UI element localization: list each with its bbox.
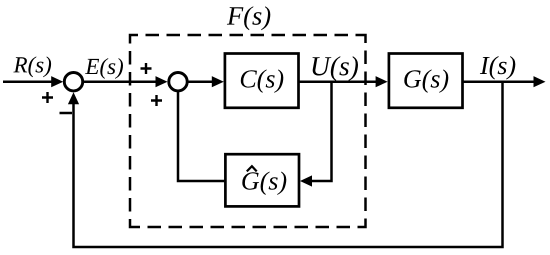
wire input R(s)	[3, 80, 57, 83]
block C(s)	[225, 54, 299, 108]
label Ghat(s)	[242, 172, 286, 196]
arrowhead into summing junction S2	[156, 76, 168, 87]
block G(s)	[389, 54, 463, 108]
arrowhead into S1 bottom	[68, 92, 79, 104]
label F(s)	[227, 6, 270, 30]
wire E(s): S1 to S2	[83, 80, 161, 83]
arrowhead into C(s)	[212, 76, 224, 87]
plus sign above S2 input	[141, 63, 152, 74]
summing junction S1	[64, 73, 82, 91]
wire U(s) tap down to Ghat input	[306, 81, 332, 182]
label I(s)	[480, 56, 515, 80]
label E(s)	[85, 58, 123, 79]
wire C(s) to G(s)	[299, 80, 382, 83]
wire outer feedback loop	[74, 81, 503, 248]
summing junction S2	[169, 73, 187, 91]
wire G(s) to output	[463, 80, 540, 83]
minus sign at S1 feedback	[60, 112, 73, 115]
arrowhead into summing junction S1	[51, 76, 63, 87]
block Ghat(s)	[225, 154, 299, 206]
wire S2 to C(s)	[187, 80, 218, 83]
label R(s)	[13, 56, 51, 77]
hat accent over G	[247, 166, 257, 171]
dashed box F(s) boundary	[130, 35, 366, 227]
label U(s)	[313, 56, 359, 81]
arrowhead into Ghat right edge	[300, 175, 312, 186]
plus sign below S2 (feedback)	[151, 95, 162, 106]
arrowhead output I(s)	[534, 76, 546, 87]
label G(s)	[404, 69, 448, 93]
plus sign at S1 input	[42, 92, 53, 103]
label C(s)	[241, 69, 283, 93]
arrowhead into G(s)	[376, 76, 388, 87]
wire Ghat output up to S2	[178, 91, 225, 181]
